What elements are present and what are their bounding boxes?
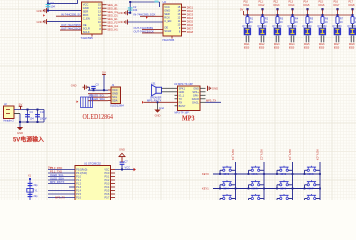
- svg-text:DIG2: DIG2: [259, 4, 265, 7]
- svg-text:BUSY: BUSY: [179, 105, 186, 108]
- svg-text:KEY2: KEY2: [280, 173, 287, 176]
- svg-text:P0.7: P0.7: [104, 197, 110, 200]
- svg-text:5V: 5V: [19, 102, 23, 106]
- svg-text:1K: 1K: [340, 21, 343, 24]
- svg-text:U1 STC89C52: U1 STC89C52: [84, 161, 101, 165]
- svg-text:Header 2: Header 2: [4, 120, 15, 123]
- svg-text:SCLK: SCLK: [83, 30, 90, 34]
- svg-text:SEG_H1: SEG_H1: [107, 27, 118, 31]
- svg-text:IN-74HC595_SCK: IN-74HC595_SCK: [61, 13, 83, 17]
- svg-text:OUT-74HC5SCK: OUT-74HC5SCK: [134, 29, 155, 33]
- svg-text:SEG_B1: SEG_B1: [107, 6, 118, 10]
- svg-text:SER: SER: [164, 12, 170, 16]
- svg-text:SCL: SCL: [112, 95, 118, 99]
- svg-text:GND: GND: [212, 87, 218, 91]
- svg-text:KEY5: KEY5: [252, 187, 259, 190]
- svg-text:IN-74HC595_SCK: IN-74HC595_SCK: [134, 13, 156, 17]
- svg-text:OE: OE: [164, 25, 168, 29]
- svg-text:KEY3: KEY3: [308, 173, 315, 176]
- svg-text:C10: C10: [40, 111, 45, 114]
- svg-text:8550: 8550: [319, 46, 325, 49]
- svg-text:OLED_SDA: OLED_SDA: [91, 97, 105, 101]
- svg-text:DIG4: DIG4: [289, 4, 295, 7]
- svg-text:SDA: SDA: [112, 99, 118, 103]
- svg-text:OLED_SCL: OLED_SCL: [50, 173, 64, 177]
- svg-text:GND: GND: [17, 131, 23, 135]
- svg-text:1K: 1K: [265, 21, 268, 24]
- svg-text:SCLR: SCLR: [164, 29, 171, 33]
- svg-text:KEY1: KEY1: [252, 173, 259, 176]
- svg-text:DIG1: DIG1: [187, 5, 194, 9]
- svg-text:104: 104: [133, 8, 138, 12]
- svg-text:DIG3: DIG3: [187, 12, 194, 16]
- svg-text:GND: GND: [119, 148, 125, 152]
- svg-text:100uF: 100uF: [40, 118, 48, 121]
- svg-text:VCC: VCC: [83, 3, 89, 7]
- svg-text:GND: GND: [37, 20, 43, 24]
- svg-text:8550: 8550: [274, 46, 280, 49]
- svg-text:8550: 8550: [244, 46, 250, 49]
- svg-text:SER: SER: [83, 10, 89, 14]
- svg-text:KEY_C2: KEY_C2: [259, 150, 263, 161]
- svg-text:VCC: VCC: [112, 88, 118, 92]
- svg-text:74HC595: 74HC595: [81, 36, 94, 40]
- svg-text:1K: 1K: [325, 21, 328, 24]
- svg-text:C_EN: C_EN: [83, 17, 90, 21]
- svg-text:MP3_TX: MP3_TX: [55, 196, 65, 200]
- svg-text:DIG5: DIG5: [187, 19, 194, 23]
- svg-text:P1.6: P1.6: [76, 197, 82, 200]
- svg-text:MP3_TX: MP3_TX: [206, 99, 216, 103]
- svg-text:DIG1: DIG1: [244, 4, 250, 7]
- svg-text:P3.1_TXD: P3.1_TXD: [50, 169, 62, 173]
- svg-text:DIG5: DIG5: [304, 4, 310, 7]
- svg-text:GND: GND: [155, 113, 161, 117]
- svg-text:OUT-74HC595N: OUT-74HC595N: [134, 26, 154, 30]
- svg-text:DACL: DACL: [192, 101, 199, 104]
- svg-text:8550: 8550: [304, 46, 310, 49]
- svg-text:GND: GND: [118, 11, 124, 15]
- svg-text:GND: GND: [71, 84, 77, 88]
- svg-text:VCC: VCC: [125, 166, 131, 170]
- svg-text:Q? 8550: Q? 8550: [347, 25, 356, 28]
- svg-text:KEY7: KEY7: [308, 187, 315, 190]
- svg-text:KEY0: KEY0: [223, 173, 230, 176]
- svg-text:KEY_C4: KEY_C4: [315, 150, 319, 161]
- svg-text:DIG7: DIG7: [334, 4, 340, 7]
- svg-text:OUT-74HC595N: OUT-74HC595N: [61, 23, 81, 27]
- svg-text:DIG8: DIG8: [187, 30, 194, 34]
- svg-text:P3.0_RXD: P3.0_RXD: [50, 166, 62, 170]
- svg-text:OUT-74HC5SCK: OUT-74HC5SCK: [61, 27, 82, 31]
- svg-text:KEY1: KEY1: [202, 187, 209, 191]
- svg-text:103: 103: [89, 94, 94, 97]
- svg-text:8550: 8550: [349, 46, 355, 49]
- svg-text:OE: OE: [83, 23, 87, 27]
- svg-text:KEY_C3: KEY_C3: [288, 150, 292, 161]
- svg-text:1K: 1K: [295, 21, 298, 24]
- svg-text:DIG6: DIG6: [187, 23, 194, 27]
- svg-text:RCK: RCK: [164, 16, 170, 20]
- svg-text:22p: 22p: [34, 195, 39, 198]
- svg-text:C_EN: C_EN: [164, 19, 171, 23]
- svg-text:1K: 1K: [310, 21, 313, 24]
- svg-text:GND: GND: [83, 6, 89, 10]
- svg-text:RCK: RCK: [83, 13, 89, 17]
- svg-text:Gnd: Gnd: [159, 107, 164, 110]
- svg-text:8550: 8550: [334, 46, 340, 49]
- svg-text:1K: 1K: [280, 21, 283, 24]
- svg-text:SEG_A1: SEG_A1: [107, 3, 118, 7]
- svg-text:8550: 8550: [289, 46, 295, 49]
- svg-text:SEG_E1: SEG_E1: [107, 17, 118, 21]
- svg-text:MP3_RX/TX: MP3_RX/TX: [50, 180, 65, 184]
- svg-text:DIG6: DIG6: [319, 4, 325, 7]
- svg-text:KEY4: KEY4: [223, 187, 230, 190]
- svg-text:MP3: MP3: [182, 115, 195, 123]
- svg-text:KEY_C1: KEY_C1: [231, 150, 235, 161]
- svg-text:5V电源输入: 5V电源输入: [13, 136, 44, 144]
- svg-text:22p: 22p: [34, 184, 39, 187]
- svg-text:KEY6: KEY6: [280, 187, 287, 190]
- svg-text:SEG_G1: SEG_G1: [107, 24, 118, 28]
- svg-text:GND: GND: [118, 20, 124, 24]
- svg-text:KEY0: KEY0: [202, 172, 209, 176]
- svg-text:OLED12864: OLED12864: [110, 105, 124, 108]
- svg-text:GND: GND: [112, 92, 118, 96]
- svg-text:MP3_RX/TX: MP3_RX/TX: [147, 99, 162, 103]
- svg-text:SEG_F1: SEG_F1: [107, 20, 118, 24]
- svg-text:DIG8: DIG8: [349, 4, 355, 7]
- svg-text:104: 104: [51, 4, 56, 8]
- svg-text:OLED12864: OLED12864: [83, 112, 114, 121]
- svg-text:GND: GND: [164, 9, 170, 13]
- svg-text:DIG3: DIG3: [274, 4, 280, 7]
- svg-text:OLED_SDA: OLED_SDA: [50, 176, 64, 180]
- svg-text:DIG7: DIG7: [187, 26, 194, 30]
- svg-text:104: 104: [30, 118, 35, 121]
- svg-text:8550: 8550: [259, 46, 265, 49]
- svg-text:GND: GND: [37, 9, 43, 13]
- svg-text:OLED_SCL: OLED_SCL: [91, 94, 105, 98]
- svg-text:DIG2: DIG2: [187, 9, 194, 13]
- svg-text:VCC: VCC: [164, 5, 170, 9]
- svg-text:74HC595: 74HC595: [162, 38, 175, 42]
- svg-text:1K: 1K: [250, 21, 253, 24]
- svg-text:DIG4: DIG4: [187, 16, 194, 20]
- svg-text:5V: 5V: [240, 8, 243, 12]
